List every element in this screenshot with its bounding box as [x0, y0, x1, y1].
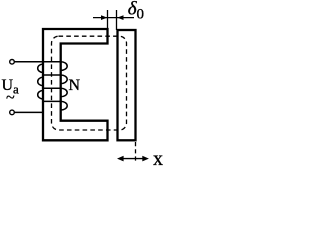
motion arrowhead right: [142, 156, 149, 162]
core (C-shaped magnetic yoke): [43, 29, 108, 140]
coil turn wire 2: [42, 74, 61, 76]
coil left arc 3: [38, 91, 43, 99]
svg-text:~: ~: [6, 90, 15, 107]
dimension arrowhead left: [101, 15, 107, 20]
flux path (dashed loop): [52, 36, 127, 130]
dimension arrowhead right: [117, 15, 123, 20]
motion arrow line: [120, 158, 146, 160]
coil right arc 3: [61, 88, 68, 97]
svg-text:0: 0: [137, 7, 145, 23]
coil turn wire 4: [42, 100, 61, 102]
armature (movable bar): [118, 30, 136, 140]
armature reference dashed line: [135, 142, 137, 161]
svg-text:N: N: [69, 77, 81, 94]
motion arrowhead left: [117, 156, 124, 162]
bottom lead wire: [14, 111, 43, 113]
terminal bottom: [10, 110, 15, 115]
dimension line: [93, 17, 134, 19]
coil right arc 1: [61, 62, 67, 71]
coil right arc 4: [61, 101, 68, 110]
terminal top: [10, 60, 15, 65]
coil turn wire 1 (top lead crossing leg): [14, 61, 60, 63]
coil right arc 2: [61, 75, 68, 84]
dimension extension line right: [116, 10, 118, 30]
coil left arc 1: [38, 64, 43, 72]
dimension extension line left: [107, 10, 109, 29]
coil left arc 2: [38, 77, 43, 85]
coil turn wire 3: [42, 87, 61, 89]
svg-text:x: x: [153, 148, 163, 170]
